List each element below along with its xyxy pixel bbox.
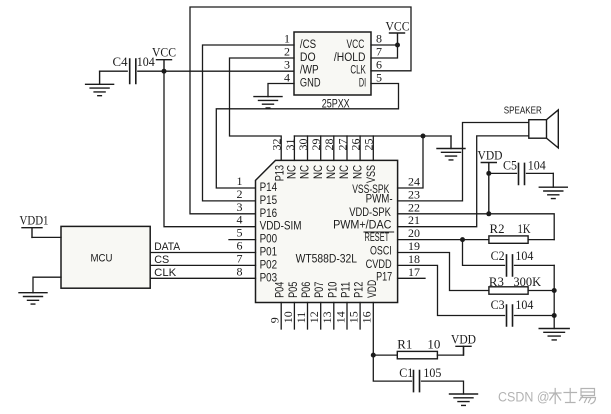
svg-text:4: 4 (237, 213, 243, 227)
svg-text:DATA: DATA (154, 241, 181, 253)
svg-text:P06: P06 (301, 282, 313, 298)
svg-text:20: 20 (408, 226, 420, 240)
svg-text:CS: CS (154, 254, 169, 266)
wire /CS (25PXX pin1) to WT588D P15 (pin2) (203, 45, 295, 201)
wire R1 to VDD (437, 346, 463, 355)
svg-text:8: 8 (376, 32, 382, 46)
svg-text:5: 5 (237, 226, 243, 240)
power VCC (top-right, 25PXX pin 8) (386, 19, 410, 46)
svg-text:P00: P00 (260, 234, 278, 246)
svg-text:VSS: VSS (366, 165, 378, 183)
power VDD1 (20, 213, 49, 238)
svg-text:P13: P13 (275, 165, 287, 181)
svg-text:6: 6 (376, 58, 382, 72)
svg-text:NC: NC (339, 165, 351, 179)
wire DI (25PXX pin5) to WT588D P14 (pin1) (216, 84, 398, 189)
junction: VCC / C4 / wire to /WP and VDD-SIM (162, 69, 167, 74)
svg-text:CSDN @: CSDN @ (498, 390, 550, 405)
svg-text:NC: NC (313, 165, 325, 179)
resistor R1 (397, 338, 440, 359)
svg-text:300K: 300K (513, 275, 541, 289)
bottom pin stub 13 (333, 303, 335, 330)
wire DO (25PXX pin2) to WT588D P13 (pin32) (230, 58, 295, 160)
svg-text:1K: 1K (518, 222, 531, 236)
top pin stub 30 (307, 136, 309, 160)
junction pin16 / R1 (371, 353, 376, 358)
svg-text:21: 21 (408, 213, 420, 227)
junction RESET / C2 (460, 237, 465, 242)
svg-text:4: 4 (284, 71, 290, 85)
IC U1 WT588D-32L body (256, 160, 398, 302)
svg-text:18: 18 (408, 252, 420, 266)
svg-text:8: 8 (237, 264, 243, 278)
svg-text:23: 23 (408, 187, 420, 201)
svg-text:/HOLD: /HOLD (334, 52, 366, 64)
svg-text:VDD: VDD (367, 280, 379, 298)
svg-text:SPEAKER: SPEAKER (504, 105, 542, 117)
wire pin16 to R1 (373, 354, 397, 356)
svg-text:3: 3 (237, 200, 243, 214)
svg-text:10: 10 (427, 338, 440, 352)
top pin stub 25 (372, 136, 374, 160)
capacitor C5 (489, 159, 554, 185)
wire VCC node down to WT588D VDD-SIM (pin 4) (164, 71, 256, 227)
svg-text:104: 104 (515, 298, 534, 312)
MCU body (61, 226, 150, 288)
svg-text:DI: DI (359, 77, 366, 89)
易 (580, 389, 596, 404)
svg-text:CVDD: CVDD (366, 259, 392, 271)
top pin stub 29 (320, 136, 322, 160)
bottom pin stub 9 (280, 303, 282, 330)
resistor R3 (489, 275, 541, 294)
svg-text:3: 3 (284, 58, 290, 72)
wire VDD-SPK (pin 22) to VDD rail (398, 214, 555, 240)
top pin stub 27 (346, 136, 348, 160)
capacitor C4 (100, 55, 164, 84)
power VCC (top-left) (152, 45, 176, 72)
wire OSCI (pin 19) to R3 (398, 253, 489, 291)
stub P00 (pin 5, n.c.) (229, 239, 256, 241)
bottom pin stub 15 (359, 303, 361, 330)
svg-text:VDD-SIM: VDD-SIM (260, 221, 302, 233)
木 (550, 389, 562, 404)
svg-text:P10: P10 (327, 282, 339, 298)
wire GND (25PXX pin4) (268, 84, 294, 97)
wire VDD1 to MCU (32, 236, 61, 238)
svg-text:GND: GND (300, 77, 321, 89)
wire RESET (pin 20) to R2 (398, 239, 489, 241)
IC 25PXX body (294, 32, 371, 95)
svg-text:VCC: VCC (347, 39, 365, 51)
capacitor C1 (399, 366, 463, 394)
svg-text:19: 19 (408, 239, 420, 253)
svg-text:P16: P16 (260, 208, 278, 220)
ground (rail) (539, 329, 569, 340)
wire CLK (MCU to WT588D P03) (150, 277, 255, 279)
svg-text:RESET: RESET (365, 232, 390, 244)
svg-text:VDD: VDD (451, 332, 476, 347)
svg-text:P01: P01 (260, 247, 278, 259)
svg-text:P12: P12 (354, 282, 366, 298)
svg-text:NC: NC (287, 165, 299, 179)
wire VCC node to 25PXX /WP (pin 3) (164, 70, 294, 72)
wire NC/VSS top bus (294, 135, 451, 137)
bottom pin stub 14 (346, 303, 348, 330)
svg-text:C1: C1 (399, 366, 413, 380)
bottom pin stub 12 (320, 303, 322, 330)
svg-text:R3: R3 (489, 275, 504, 289)
svg-text:2: 2 (284, 45, 290, 59)
ground (C5) (539, 187, 567, 198)
svg-text:17: 17 (408, 265, 420, 279)
wire PWM- (pin 23) to speaker top (398, 123, 529, 201)
svg-text:PWM+/DAC: PWM+/DAC (333, 220, 391, 232)
wire VCC (pin 8) (371, 44, 398, 46)
svg-text:VCC: VCC (152, 45, 176, 60)
speaker LS1 (529, 110, 559, 148)
bottom pin stub 11 (307, 303, 309, 330)
svg-text:P15: P15 (260, 195, 278, 207)
svg-text:13: 13 (320, 311, 334, 323)
junction pin8/pin7/VCC (395, 43, 400, 48)
svg-text:10: 10 (281, 311, 295, 323)
watermark CSDN @木士易 (498, 389, 596, 405)
svg-text:104: 104 (528, 159, 547, 173)
ground (MCU) (19, 293, 47, 304)
power VDD (bottom) (451, 332, 476, 356)
bottom pin stub 10 (293, 303, 295, 330)
svg-text:WT588D-32L: WT588D-32L (296, 254, 358, 266)
svg-text:CLK: CLK (154, 267, 177, 279)
top pin stub 28 (333, 136, 335, 160)
wire DATA (MCU to WT588D P01) (150, 252, 255, 254)
svg-text:C3: C3 (491, 298, 505, 312)
ground rail (C2/R3/C3) (553, 265, 555, 328)
wire PWM+/DAC (pin 21) to speaker bottom (398, 136, 529, 227)
resistor R2 (489, 222, 531, 243)
ground (VSS bus) (437, 136, 465, 160)
svg-text:R1: R1 (397, 338, 412, 352)
svg-text:NC: NC (326, 165, 338, 179)
svg-text:6: 6 (237, 239, 243, 253)
士 (564, 389, 577, 403)
ground (25PXX GND) (254, 97, 282, 108)
svg-text:P11: P11 (341, 282, 353, 298)
svg-text:5: 5 (376, 71, 382, 85)
svg-text:NC: NC (300, 165, 312, 179)
ground (C1) (450, 394, 478, 405)
svg-text:NC: NC (352, 165, 364, 179)
svg-text:22: 22 (408, 200, 420, 214)
svg-text:C4: C4 (113, 55, 129, 69)
power VDD (near C5) (478, 148, 503, 214)
svg-text:P02: P02 (260, 259, 278, 271)
wire R2 to VDD rail (528, 239, 554, 241)
svg-text:R2: R2 (490, 222, 505, 236)
svg-text:12: 12 (307, 311, 321, 323)
junction R3 / ground rail (552, 288, 557, 293)
junction VDD / C5 (486, 171, 491, 176)
svg-text:PWM-: PWM- (366, 194, 393, 206)
stub P17 (pin 17, n.c.) (398, 277, 425, 279)
svg-text:1: 1 (284, 32, 290, 46)
junction C3 / ground rail (552, 313, 557, 318)
top pin stub 26 (359, 136, 361, 160)
svg-text:7: 7 (237, 251, 243, 265)
junction VSS bus / VSS-SPK (421, 134, 426, 139)
svg-text:P07: P07 (314, 282, 326, 298)
capacitor C3 (491, 298, 555, 326)
svg-text:7: 7 (376, 45, 382, 59)
wire CLK (25PXX pin6) loop to WT588D P16 (pin3) (190, 7, 411, 214)
svg-text:15: 15 (347, 311, 361, 323)
junction VDD stem / pin22 (486, 211, 491, 216)
svg-text:P04: P04 (275, 281, 287, 298)
svg-text:24: 24 (408, 175, 420, 189)
wire CS (MCU to WT588D P02) (150, 264, 255, 266)
svg-text:P05: P05 (288, 282, 300, 298)
capacitor C2 (463, 240, 555, 276)
svg-text:DO: DO (300, 52, 316, 64)
svg-text:11: 11 (294, 312, 308, 324)
svg-text:/CS: /CS (300, 39, 316, 51)
svg-text:OSCI: OSCI (370, 246, 392, 258)
svg-text:VDD1: VDD1 (20, 213, 49, 228)
svg-text:C2: C2 (491, 249, 505, 263)
svg-text:32: 32 (270, 139, 284, 151)
svg-text:9: 9 (268, 317, 282, 323)
svg-text:16: 16 (360, 311, 374, 323)
svg-text:P14: P14 (260, 182, 278, 194)
wire MCU to ground (33, 277, 61, 293)
wire CVDD (pin 18) to C3 (398, 265, 505, 315)
ground (C4) (86, 71, 114, 96)
svg-text:CLK: CLK (350, 64, 366, 76)
svg-text:VDD-SPK: VDD-SPK (349, 207, 391, 219)
svg-text:MCU: MCU (91, 253, 113, 265)
svg-text:1: 1 (237, 174, 243, 188)
svg-text:2: 2 (237, 187, 243, 201)
svg-text:104: 104 (515, 249, 534, 263)
svg-text:VDD: VDD (478, 148, 503, 163)
svg-text:/WP: /WP (300, 64, 319, 76)
wire VSS-SPK (pin 24) up to VSS bus (398, 136, 423, 188)
wire R3 to ground rail (528, 290, 554, 292)
svg-text:VCC: VCC (386, 19, 410, 34)
svg-text:14: 14 (333, 311, 347, 323)
wire C5 to ground (552, 173, 554, 187)
svg-text:105: 105 (423, 366, 441, 380)
top pin stub 31 (293, 136, 295, 160)
wire /HOLD (pin 7) up to VCC (371, 45, 398, 58)
wire VDD (pin 16) down to R1/C1 (373, 303, 411, 382)
svg-text:C5: C5 (503, 159, 517, 173)
